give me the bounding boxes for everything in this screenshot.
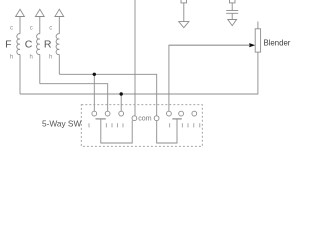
switch pole circle 2	[105, 111, 110, 116]
switch wiper link left to com	[101, 119, 132, 143]
inductor coil C	[37, 34, 40, 55]
pickup F arrow	[19, 17, 21, 34]
terminal square top capacitor	[230, 0, 236, 3]
switch pole circle 6	[192, 111, 197, 116]
svg-text:c: c	[49, 26, 52, 32]
switch com circle left	[132, 116, 137, 121]
pickup R arrow	[58, 17, 60, 34]
svg-text:R: R	[44, 39, 52, 51]
switch pole circle 4	[167, 111, 172, 116]
wire net C to switch pole 2	[40, 84, 108, 112]
switch pole circle 3	[119, 111, 124, 116]
svg-text:Blender: Blender	[264, 39, 291, 48]
potentiometer Blender body	[255, 29, 260, 52]
switch position ticks right	[170, 123, 200, 127]
blender wiper arrow head	[249, 43, 255, 47]
svg-text:c: c	[30, 26, 33, 32]
switch wiper link right to com	[157, 119, 177, 143]
junction node B	[120, 92, 123, 95]
svg-text:h: h	[10, 55, 13, 61]
5-way switch dashed box	[81, 105, 202, 147]
inductor coil R	[56, 34, 59, 55]
pickup C arrow	[39, 17, 41, 34]
svg-text:F: F	[5, 39, 11, 51]
switch wiper bar left	[96, 118, 106, 120]
capacitor C1	[231, 3, 233, 10]
wire net R to right com	[59, 74, 156, 116]
wire branch node B down	[120, 94, 122, 111]
switch position ticks left	[89, 123, 123, 127]
svg-text:com: com	[138, 116, 151, 123]
switch pole circle 5	[179, 111, 184, 116]
switch pole circle 1	[92, 111, 97, 116]
svg-text:C: C	[25, 39, 33, 51]
capacitor ground arrow head	[228, 20, 237, 26]
svg-text:h: h	[49, 55, 52, 61]
wiper arrow line	[169, 44, 250, 46]
inductor coil F	[17, 34, 20, 55]
svg-text:h: h	[30, 55, 33, 61]
wire branch node A down	[93, 74, 95, 111]
wire net F to blender bottom	[20, 52, 258, 94]
svg-text:5-Way SW: 5-Way SW	[42, 118, 82, 128]
ground arrow wire	[183, 3, 185, 22]
wire top vertical to left com	[134, 0, 136, 116]
wire F down	[19, 55, 21, 95]
switch wiper bar right	[172, 118, 182, 120]
potentiometer Blender top stub	[257, 22, 259, 29]
switch com circle right	[154, 116, 159, 121]
wire R down	[58, 55, 60, 75]
terminal square top ground	[181, 0, 187, 3]
ground arrow head	[179, 22, 189, 28]
svg-text:c: c	[10, 26, 13, 32]
wire C down	[39, 55, 41, 84]
junction node A	[93, 73, 96, 76]
wire blender wiper to switch	[169, 45, 250, 111]
